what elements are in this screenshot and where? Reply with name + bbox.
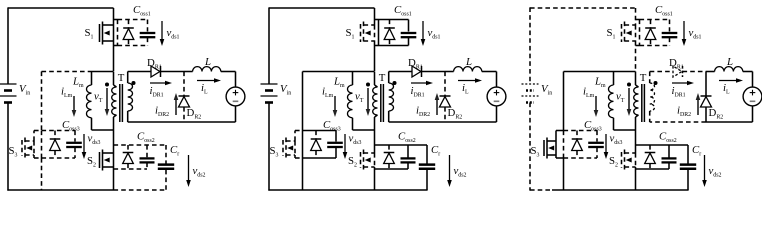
wire clamp vertical	[563, 72, 565, 131]
capacitor Coss3 plates	[327, 143, 343, 147]
iLm arrow	[333, 96, 338, 117]
vT arrow	[627, 83, 632, 117]
transformer primary winding	[112, 72, 117, 131]
iLm arrow	[594, 96, 599, 117]
label Coss1	[133, 4, 151, 17]
wire clamp bottom	[41, 158, 43, 190]
label Coss2	[398, 131, 416, 144]
label Coss2	[137, 131, 155, 144]
battery Vin	[0, 83, 30, 103]
wire secondary bottom	[650, 121, 706, 123]
wire circle to bottom	[496, 106, 498, 122]
panel mode 3	[522, 4, 762, 191]
capacitor Coss1 box	[636, 20, 670, 46]
capacitor Coss3 box	[303, 131, 337, 159]
wire secondary top left	[389, 71, 412, 73]
vds1 arrow	[160, 21, 165, 46]
wire drain feed S1	[374, 8, 376, 25]
label iLm	[583, 86, 595, 99]
diode DR1	[151, 66, 161, 77]
svg-text:T: T	[640, 72, 647, 84]
capacitor Coss1 plates	[662, 33, 678, 37]
iL arrow	[197, 78, 221, 83]
transistor S3	[544, 131, 564, 159]
wire clamp bottom	[563, 158, 565, 190]
capacitor Cr	[158, 145, 174, 190]
capacitor Coss2 plates	[401, 158, 416, 162]
wire top rail	[530, 7, 636, 9]
label Coss2	[659, 131, 677, 144]
iDR2 arrow	[696, 93, 701, 115]
source Vo circle	[487, 87, 506, 106]
label Lm	[594, 76, 606, 89]
capacitor Coss2 plates	[662, 158, 677, 162]
wire node to L	[184, 71, 193, 73]
source Vo circle	[226, 87, 245, 106]
label Lm	[333, 76, 345, 89]
wire L to corner	[482, 72, 497, 88]
diode body D-S2	[645, 153, 656, 164]
wire secondary top left	[128, 71, 151, 73]
vds3 arrow	[82, 134, 87, 159]
label iL	[723, 82, 730, 95]
wire drain feed S1	[113, 8, 115, 25]
wire left rail upper	[268, 7, 270, 84]
inductor Lm	[348, 72, 375, 131]
transformer primary winding	[634, 72, 639, 131]
wire left rail upper	[529, 7, 531, 84]
label vds3	[349, 133, 362, 146]
transistor S2	[100, 150, 114, 171]
wire S2 source to rail	[374, 167, 376, 190]
capacitor Coss3 box	[564, 131, 598, 159]
label S3	[531, 145, 540, 158]
wire bottom rail extension	[636, 189, 689, 191]
label L	[204, 56, 211, 68]
iLm arrow	[72, 96, 77, 117]
vT arrow	[366, 83, 371, 117]
label DR2	[709, 107, 724, 120]
wire primary bottom to S2 drain	[635, 130, 637, 153]
label L	[726, 56, 733, 68]
label Coss3	[584, 119, 602, 132]
label Cr	[170, 144, 179, 157]
transistor S1	[622, 22, 636, 45]
label Coss3	[323, 119, 341, 132]
label T	[640, 72, 647, 84]
svg-text:L: L	[726, 56, 733, 68]
wire DR2 stem lower	[183, 107, 185, 122]
label vT	[355, 91, 364, 104]
vds3 arrow	[343, 134, 348, 159]
svg-text:L: L	[465, 56, 472, 68]
diode DR2	[701, 96, 712, 107]
label DR1	[669, 57, 684, 70]
transistor S1	[361, 22, 375, 45]
label Cr	[692, 144, 701, 157]
transformer core	[642, 84, 645, 122]
capacitor Coss3 plates	[588, 143, 604, 147]
wire DR2 stem upper	[183, 72, 185, 97]
secondary dot	[654, 81, 658, 85]
label iDR2	[155, 105, 169, 118]
label iDR1	[411, 85, 425, 98]
iDR1 arrow	[150, 81, 172, 86]
wire clamp top	[564, 71, 611, 73]
vT arrow	[105, 83, 110, 117]
label iL	[201, 82, 208, 95]
label Cr	[431, 144, 440, 157]
wire bottom rail	[268, 189, 374, 191]
wire secondary top left	[650, 71, 673, 73]
wire clamp vertical	[41, 72, 43, 131]
panel mode 1	[0, 4, 245, 191]
iDR2 arrow	[174, 93, 179, 115]
label S1	[85, 27, 94, 40]
wire left rail upper	[7, 7, 9, 84]
vds3 arrow	[604, 134, 609, 159]
label iDR2	[677, 105, 691, 118]
wire top rail	[269, 7, 375, 9]
wire DR2 stem upper	[705, 72, 707, 97]
vds1 arrow	[682, 21, 687, 46]
wire DR1 to node	[422, 71, 446, 73]
capacitor Coss2 plates	[140, 158, 155, 162]
wire drain feed S1	[635, 8, 637, 25]
transformer secondary winding	[650, 72, 655, 123]
diode body D-S3	[311, 131, 322, 159]
wire circle to bottom	[752, 106, 754, 122]
wire DR2 stem lower	[705, 107, 707, 122]
wire output bottom	[706, 121, 753, 123]
vds1 arrow	[421, 21, 426, 46]
transformer core	[381, 84, 384, 122]
label L	[465, 56, 472, 68]
diode body D-S3	[572, 131, 583, 159]
diode body D-S2	[384, 153, 395, 164]
transistor S3	[283, 131, 303, 159]
wire DR2 stem lower	[444, 107, 446, 122]
panel mode 2	[261, 4, 506, 191]
label DR1	[408, 57, 423, 70]
wire bottom rail	[530, 189, 636, 191]
wire clamp bottom	[302, 158, 304, 190]
wire S2 source to rail	[113, 167, 115, 190]
diode body D-S1	[645, 20, 656, 46]
capacitor Cr	[419, 145, 435, 190]
capacitor Coss2 box	[636, 145, 689, 169]
wire DR1 to node	[683, 71, 707, 73]
diode body D-S3	[50, 131, 61, 159]
label Coss3	[62, 119, 80, 132]
diode body D-S1	[384, 20, 395, 46]
wire left rail lower	[529, 103, 531, 191]
wire top rail	[8, 7, 114, 9]
wire S1 source to primary	[374, 41, 376, 71]
source Vo circle	[743, 87, 762, 106]
wire left rail lower	[7, 103, 9, 191]
secondary dot	[393, 81, 397, 85]
iDR2 arrow	[435, 93, 440, 115]
battery Vin	[522, 83, 553, 103]
diode body D-S2	[123, 153, 134, 164]
wire output bottom	[445, 121, 497, 123]
transistor S2	[361, 150, 375, 171]
wire secondary bottom	[128, 121, 184, 123]
diode body D-S1	[123, 20, 134, 46]
label iLm	[61, 86, 73, 99]
label vT	[616, 91, 625, 104]
wire left rail lower	[268, 103, 270, 191]
diode DR1	[673, 66, 683, 77]
diode DR2	[179, 96, 190, 107]
inductor L	[715, 67, 743, 72]
inductor Lm	[609, 72, 636, 131]
capacitor Coss3 box	[42, 131, 76, 159]
label T	[118, 72, 125, 84]
secondary dot	[132, 81, 136, 85]
label iLm	[322, 86, 334, 99]
label DR1	[147, 57, 162, 70]
label Coss1	[655, 4, 673, 17]
label vds2	[454, 165, 467, 178]
label S1	[346, 27, 355, 40]
label vds1	[689, 27, 702, 40]
label S2	[87, 155, 96, 168]
capacitor Coss1 box	[375, 20, 409, 46]
inductor L	[454, 67, 482, 72]
wire node to L	[706, 71, 715, 73]
wire circle to bottom	[235, 106, 237, 122]
transistor S3	[22, 131, 42, 159]
diode DR2	[440, 96, 451, 107]
wire S1 source to primary	[635, 41, 637, 71]
label iDR1	[150, 85, 164, 98]
wire primary bottom to S2 drain	[113, 130, 115, 153]
label T	[379, 72, 386, 84]
diode DR1	[412, 66, 422, 77]
battery Vin	[261, 83, 292, 103]
vds2 arrow	[186, 155, 191, 187]
vds2 arrow	[702, 155, 707, 187]
capacitor Coss1 plates	[140, 33, 156, 37]
inductor Lm	[87, 72, 114, 131]
label vds3	[88, 133, 101, 146]
wire output bottom	[184, 121, 236, 123]
capacitor Coss3 plates	[66, 143, 82, 147]
iDR1 arrow	[672, 81, 694, 86]
capacitor Coss1 plates	[401, 33, 417, 37]
label S2	[609, 155, 618, 168]
wire DR1 to node	[161, 71, 185, 73]
wire bottom rail extension	[375, 189, 428, 191]
label DR2	[187, 107, 202, 120]
label S3	[9, 145, 18, 158]
label iDR2	[416, 105, 430, 118]
iL arrow	[719, 78, 743, 83]
svg-text:T: T	[118, 72, 125, 84]
capacitor Coss2 box	[114, 145, 167, 169]
label iL	[462, 82, 469, 95]
wire L to corner	[743, 72, 753, 88]
iDR1 arrow	[411, 81, 433, 86]
wire node to L	[445, 71, 454, 73]
wire bottom rail	[7, 189, 113, 191]
label DR2	[448, 107, 463, 120]
transformer secondary winding	[128, 72, 133, 123]
transformer core	[120, 84, 123, 122]
label vds3	[610, 133, 623, 146]
label vds1	[167, 27, 180, 40]
transformer secondary winding	[389, 72, 394, 123]
wire S1 source to primary	[113, 41, 115, 71]
label iDR1	[672, 85, 686, 98]
label Lm	[72, 76, 84, 89]
transistor S2	[622, 150, 636, 171]
wire bottom rail extension	[114, 189, 167, 191]
wire clamp vertical	[302, 72, 304, 131]
wire primary bottom to S2 drain	[374, 130, 376, 153]
wire clamp top	[303, 71, 350, 73]
capacitor Coss2 box	[375, 145, 428, 169]
wire DR2 stem upper	[444, 72, 446, 97]
label S3	[270, 145, 279, 158]
wire clamp top	[42, 71, 89, 73]
transistor S1	[100, 22, 114, 45]
iL arrow	[458, 78, 482, 83]
svg-text:L: L	[204, 56, 211, 68]
inductor L	[193, 67, 221, 72]
label vds1	[428, 27, 441, 40]
transformer primary winding	[373, 72, 378, 131]
capacitor Coss1 box	[114, 20, 148, 46]
label Coss1	[394, 4, 412, 17]
capacitor Cr	[680, 145, 696, 190]
wire S2 source to rail	[635, 167, 637, 190]
wire L to corner	[221, 72, 236, 88]
label S1	[607, 27, 616, 40]
label vds2	[193, 165, 206, 178]
vds2 arrow	[447, 155, 452, 187]
wire secondary bottom	[389, 121, 445, 123]
svg-text:T: T	[379, 72, 386, 84]
label S2	[348, 155, 357, 168]
label vT	[94, 91, 103, 104]
label vds2	[709, 165, 722, 178]
